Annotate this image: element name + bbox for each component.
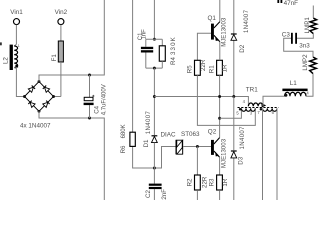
diode D1 [152,135,158,137]
svg-text:L2: L2 [2,57,9,64]
capacitor C2 [153,168,155,200]
node diac/R2 [196,145,199,148]
wire snubber feed [153,0,155,39]
svg-text:MJE13003: MJE13003 [221,17,227,47]
svg-text:C3: C3 [282,32,291,39]
edge mark (cropped element at left border) [0,42,2,45]
wire LMP1 top [312,6,314,19]
svg-text:F1: F1 [51,54,58,62]
svg-text:LMP2: LMP2 [302,54,309,71]
svg-text:L1: L1 [290,80,298,87]
svg-text:R4: R4 [170,57,177,65]
wire L2 to bridge left node [14,68,24,97]
resistor R6 [133,146,176,168]
svg-text:22R: 22R [201,176,208,188]
node C4 bottom [88,117,91,120]
svg-text:1N4007: 1N4007 [240,126,246,150]
svg-text:LMP1: LMP1 [304,17,311,34]
node bridge bottom [38,110,41,113]
wire R2 bottom [196,190,198,200]
svg-text:D2: D2 [239,44,246,52]
node bridge right [52,95,55,98]
wire C1/R4 top bar [146,39,163,47]
wire L1 to LMP2 [306,74,313,97]
wire F1 to bridge right node [54,62,61,97]
node C1/R4 bottom [153,67,156,70]
svg-text:R6: R6 [120,145,127,153]
wire node to R2 [196,147,198,176]
lamp filament LMP1 [310,18,317,34]
wire LMP2 top loop to C3 [284,38,313,57]
node feedback tap [218,117,221,120]
svg-text:22R: 22R [200,59,207,71]
wire TR1 primary to L1 [263,96,285,106]
wire diac to Q2 base [183,146,211,148]
wire mid rail [154,97,248,107]
wire C1/R4 bottom bar [146,53,163,69]
svg-text:330K: 330K [170,36,177,55]
svg-text:4x 1N4007: 4x 1N4007 [20,123,51,130]
svg-text:D3: D3 [238,156,245,164]
TR1 secondary winding [263,108,277,111]
svg-text:22nF: 22nF [162,189,168,200]
svg-text:R3: R3 [208,178,215,186]
wire positive rail [39,0,104,82]
bridge diode top-right [43,86,50,93]
capacitor C1 [141,47,153,49]
wire D3 column [233,97,235,201]
wire Vin1 to L2 [14,25,16,46]
svg-text:R1: R1 [209,65,216,73]
svg-text:R2: R2 [186,178,193,186]
node midpoint rail [218,95,221,98]
wire long vertical to R6 [132,0,134,132]
resistor R2 [195,175,201,190]
wire mid node column [153,68,155,135]
wire C4 leads [89,75,91,118]
node C1/R4 top [153,38,156,41]
svg-text:Vin1: Vin1 [10,9,23,16]
resistor R1 [217,60,223,75]
svg-text:C2: C2 [145,190,152,198]
svg-text:TR1: TR1 [246,86,258,93]
wire R1 to midpoint [219,75,221,137]
TR1 primary winding [248,103,263,106]
lamp filament LMP2 [310,57,317,74]
svg-text:ST063: ST063 [181,131,200,138]
wire R3 bottom [219,190,221,200]
svg-text:C4: C4 [93,105,100,113]
bridge diode bottom-left [28,101,35,108]
bridge diode bottom-right [43,101,50,108]
wire Q2 emitter to R3 [219,157,221,175]
wire TR1 secondary leads [263,108,278,200]
svg-text:680K: 680K [121,124,127,138]
diode D3 [231,150,237,152]
wire Q1 base to R5 [197,33,211,60]
svg-text:1R: 1R [222,178,229,186]
svg-text:3n3: 3n3 [299,43,310,50]
capacitor C5 47nF (cropped at top) [277,0,279,3]
svg-text:1N4007: 1N4007 [146,111,152,135]
diode D2 [233,0,235,97]
svg-text:47nF: 47nF [284,0,299,7]
svg-text:MJE13003: MJE13003 [222,138,228,168]
svg-text:Q1: Q1 [208,15,217,22]
node R6/D1/C2 [153,167,156,170]
wire Q1 collector [219,0,221,22]
node C4 top [88,74,91,77]
capacitor C4 electrolytic [84,97,93,100]
svg-text:Vin2: Vin2 [55,9,68,16]
node mid rail [153,95,156,98]
node D2 rail [232,95,235,98]
fuse F1 [58,41,63,62]
wire Vin2 to F1 [60,25,62,41]
resistor R4 [159,46,165,61]
svg-text:R5: R5 [186,65,193,73]
wire C3 to LMP1 [297,34,313,39]
svg-text:1N4007: 1N4007 [244,9,250,33]
TR1 core [238,107,279,109]
svg-text:DIAC: DIAC [161,131,176,138]
bridge rectifier arms [25,82,54,112]
node bridge top [38,80,41,83]
inductor L2 [10,45,13,70]
svg-text:1R: 1R [221,64,228,72]
wire negative rail [39,111,104,200]
bridge diode top-left [28,86,35,93]
wire Q1 emitter to R1 [219,42,221,61]
svg-text:Q2: Q2 [208,129,217,136]
node bridge left [23,95,26,98]
wire R5 to TR1 winding [197,75,255,125]
resistor R5 [195,60,201,75]
svg-text:1nF: 1nF [142,29,148,40]
TR1 primary arrow [261,103,266,107]
wire feedback tap to TR1 [220,110,242,119]
svg-text:D1: D1 [143,139,150,147]
svg-text:4.7uF/400V: 4.7uF/400V [102,84,108,115]
TR1 feedback winding [241,108,255,111]
resistor R3 [217,175,223,190]
